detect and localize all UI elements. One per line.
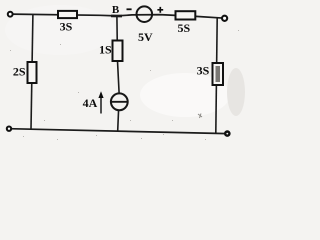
svg-text:3S: 3S <box>197 64 210 78</box>
terminal top-right <box>222 16 227 21</box>
svg-text:3S: 3S <box>60 20 73 34</box>
junction node B thickening <box>111 15 122 18</box>
resistor R3 1S (middle branch) <box>113 41 123 62</box>
voltage source V1 5V <box>137 6 153 22</box>
stray scan mark <box>198 114 202 119</box>
wire right branch (through right 3S) <box>216 18 217 133</box>
background paper <box>0 0 251 142</box>
bar of current source I1 <box>111 101 128 103</box>
resistor R5 3S (right branch) <box>213 63 224 85</box>
wire top (terminal A to terminal right) <box>11 14 225 18</box>
svg-text:1S: 1S <box>99 42 112 56</box>
current direction arrow of I1 <box>100 96 102 114</box>
terminal bottom-right <box>224 130 231 137</box>
svg-text:2S: 2S <box>13 64 26 78</box>
svg-text:5S: 5S <box>177 21 190 35</box>
resistor R1 3S (top left) <box>58 11 77 18</box>
polarity plus sign of V1 <box>157 7 163 13</box>
terminal bottom-left <box>7 127 11 131</box>
svg-text:4A: 4A <box>83 96 98 110</box>
wire bottom <box>9 129 227 134</box>
svg-text:5V: 5V <box>138 30 153 44</box>
resistor R2 2S (left branch) <box>28 62 37 83</box>
current source I1 4A <box>111 93 128 110</box>
wire left branch (through 2S) <box>31 15 33 130</box>
polarity minus sign of V1 <box>127 8 132 10</box>
svg-text:B: B <box>112 4 120 16</box>
wire middle branch (B through 1S and 4A source) <box>117 16 119 131</box>
resistor R4 5S (top right) <box>176 11 196 19</box>
terminal top-left <box>8 12 13 17</box>
